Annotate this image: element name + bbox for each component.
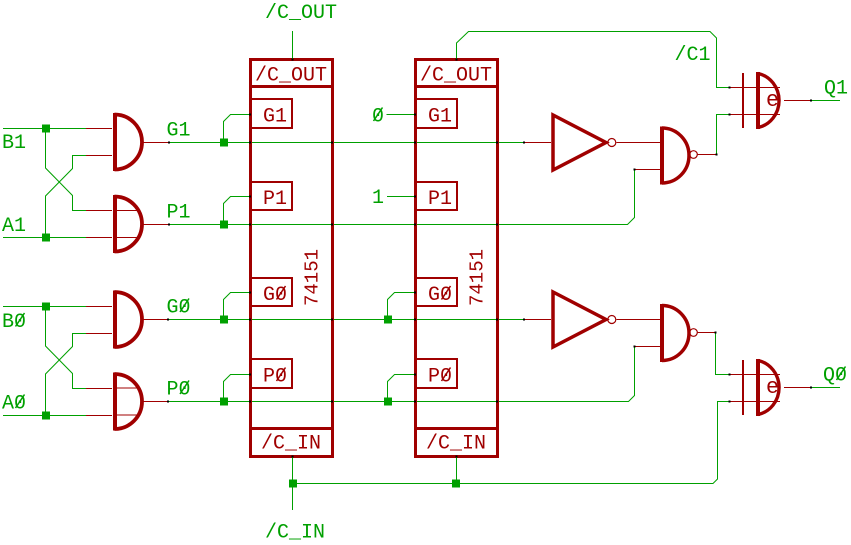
pins of AND gate P0	[86, 389, 168, 416]
wire /C1 net from U2 top to XOR1	[457, 32, 730, 88]
block U2 74151 body	[414, 60, 498, 457]
wire net P0 row	[168, 347, 635, 402]
wire B0 input	[3, 306, 86, 308]
svg-text:74151: 74151	[302, 249, 324, 306]
wire Q1 output	[811, 100, 840, 102]
wire A1 input	[3, 237, 86, 239]
wire endpoint dots	[167, 59, 812, 458]
svg-text:P0: P0	[428, 366, 452, 389]
junction P1 tap	[220, 221, 228, 229]
port box P0 of U1	[250, 359, 292, 388]
wire U4 output to XOR1	[717, 115, 730, 155]
wire B1 to P1-gate (crossover)	[46, 129, 87, 211]
svg-text:G0: G0	[167, 297, 191, 320]
svg-text:/C_IN: /C_IN	[265, 522, 325, 545]
junction /C_IN U2	[452, 480, 460, 488]
svg-text:G1: G1	[167, 120, 191, 143]
svg-text:74151: 74151	[467, 249, 489, 306]
port box P1 of U2	[415, 182, 457, 210]
junction G1 tap	[220, 139, 228, 147]
svg-text:/C_IN: /C_IN	[426, 433, 486, 456]
svg-text:B0: B0	[2, 311, 26, 334]
svg-text:G0: G0	[428, 284, 452, 307]
svg-text:P0: P0	[263, 366, 287, 389]
port text P0 of U1	[263, 366, 287, 389]
wire const 1 to U2 P1 port	[387, 196, 415, 198]
junction A0	[42, 412, 50, 420]
pins of AND gate G1	[86, 129, 169, 156]
wire /C_OUT stub above U1	[292, 31, 294, 59]
wire const 0 to U2 G1 port	[387, 114, 416, 116]
inverter U5 (G0 row)	[524, 292, 660, 347]
svg-text:/C_OUT: /C_OUT	[420, 65, 492, 88]
wire /C_IN stub below U1	[292, 457, 294, 510]
wire A0 to G0-gate (crossover)	[46, 334, 87, 416]
svg-text:e: e	[766, 375, 779, 400]
svg-text:P1: P1	[263, 188, 287, 211]
port text P0 of U2	[428, 366, 452, 389]
svg-text:/C_IN: /C_IN	[261, 433, 321, 456]
svg-text:/C1: /C1	[675, 44, 711, 67]
value label 0	[372, 106, 384, 129]
wire net G1 row	[169, 142, 524, 144]
net label P0	[167, 379, 191, 402]
XOR gate U8 (Q0)	[730, 359, 812, 416]
svg-text:P1: P1	[167, 202, 191, 225]
junction G0 tap U2	[384, 316, 392, 324]
svg-text:/C_OUT: /C_OUT	[265, 2, 337, 25]
svg-text:A0: A0	[2, 393, 26, 416]
net label Q0	[823, 365, 847, 388]
svg-text:/C_OUT: /C_OUT	[255, 65, 327, 88]
svg-text:P0: P0	[167, 379, 191, 402]
junction G0 tap U1	[220, 316, 228, 324]
junction /C_IN U1	[289, 480, 297, 488]
wire tap P0 to U1 port	[224, 375, 251, 402]
NAND gate U4 (Q1 path)	[635, 127, 717, 185]
NAND gate U6 (Q0 path)	[635, 304, 717, 362]
wire B1 input	[3, 128, 86, 130]
junction B0	[42, 303, 50, 311]
wire net P1 row	[169, 170, 635, 225]
AND gate G0	[115, 291, 143, 349]
wire tap P1 to U1 port	[224, 197, 251, 225]
net label A0	[2, 393, 26, 416]
port text G0 of U1	[263, 284, 287, 307]
wire /C_IN bus to XOR2	[293, 402, 730, 484]
wire tap G0 to U2 port	[388, 293, 416, 320]
port box G1 of U1	[250, 99, 292, 128]
junction B1	[42, 125, 50, 133]
port box P1 of U1	[250, 182, 292, 210]
wire tap G0 to U1 port	[224, 293, 251, 320]
svg-text:B1: B1	[2, 132, 26, 155]
svg-text:G0: G0	[263, 284, 287, 307]
inverter U3 (G1 row)	[524, 115, 660, 170]
svg-text:G1: G1	[428, 106, 452, 129]
wire net G0 row	[168, 319, 524, 321]
wire U6 output to XOR2	[716, 333, 730, 375]
block U1 74151 body	[249, 60, 333, 457]
port box G0 of U1	[250, 278, 292, 306]
svg-text:1: 1	[372, 187, 384, 210]
pins of AND gate G0	[86, 307, 168, 334]
wire A1 to G1-gate (crossover)	[46, 156, 87, 238]
svg-text:e: e	[766, 88, 779, 113]
svg-text:Q0: Q0	[823, 365, 847, 388]
port box G0 of U2	[415, 278, 457, 306]
wire tap P0 to U2 port	[388, 375, 416, 402]
XOR gate U7 (Q1)	[730, 72, 812, 129]
svg-text:P1: P1	[428, 188, 452, 211]
net label G0	[167, 297, 191, 320]
AND gate G1	[115, 113, 143, 171]
net label B0	[2, 311, 26, 334]
wire A0 input	[3, 415, 86, 417]
svg-text:A1: A1	[2, 215, 26, 238]
wire Q0 output	[811, 387, 840, 389]
svg-text:G1: G1	[263, 106, 287, 129]
port box G1 of U2	[415, 99, 457, 128]
port text G0 of U2	[428, 284, 452, 307]
port box P0 of U2	[415, 359, 457, 388]
wire B0 to P0-gate (crossover)	[46, 307, 87, 389]
junction A1	[42, 234, 50, 242]
AND gate P0	[115, 373, 143, 431]
junction P0 tap U2	[384, 398, 392, 406]
junction P0 tap U1	[220, 398, 228, 406]
pins of AND gate P1	[86, 211, 169, 238]
wire /C_IN net U2 bottom	[456, 457, 458, 484]
wire tap G1 to U1 port	[224, 115, 251, 143]
svg-text:Q1: Q1	[824, 78, 848, 101]
AND gate P1	[115, 195, 143, 253]
